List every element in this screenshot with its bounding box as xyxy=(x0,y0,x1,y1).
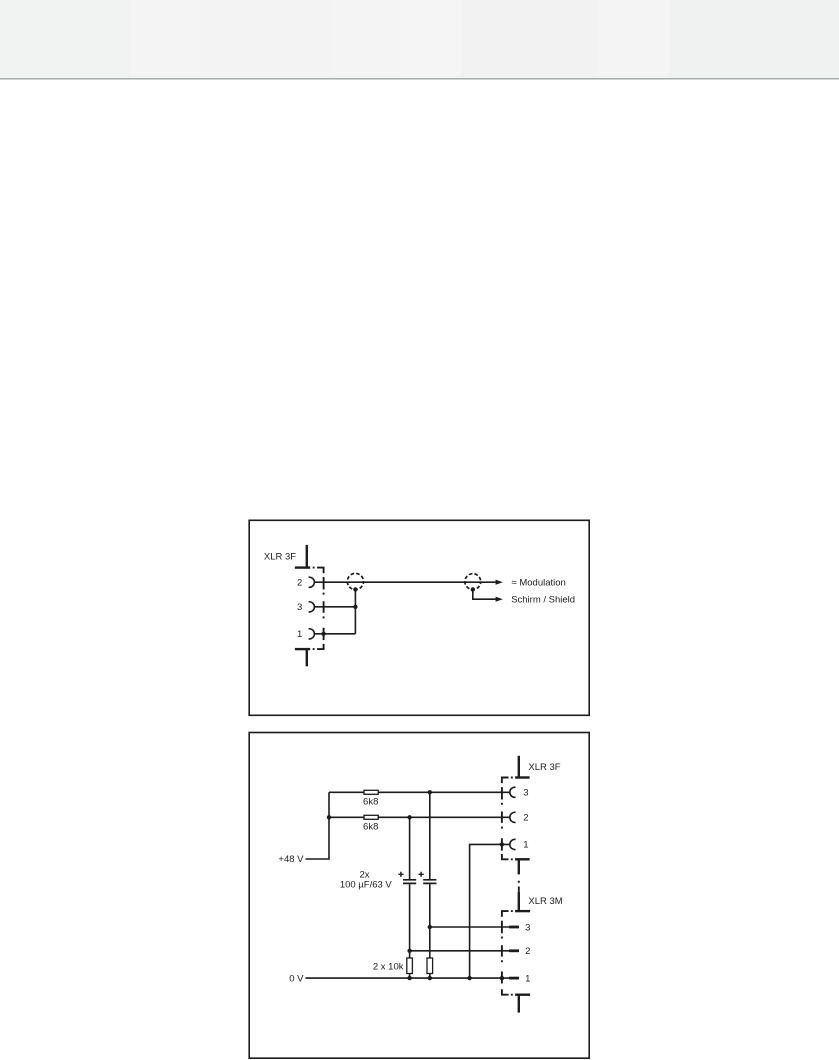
shield link dash-dot between connectors xyxy=(518,881,520,892)
pin 2 contact arc (J2) xyxy=(510,812,516,822)
svg-text:XLR 3F: XLR 3F xyxy=(264,552,296,563)
svg-text:100 µF/63 V: 100 µF/63 V xyxy=(340,880,393,891)
node +48V tee xyxy=(327,815,331,819)
connector J1 shell bottom bar xyxy=(295,648,310,650)
wire pin1 riser xyxy=(470,844,510,978)
capacitor C1 plus sign xyxy=(398,872,403,877)
resistor R3 10k xyxy=(407,958,413,974)
svg-text:3: 3 xyxy=(523,788,528,799)
node XLR3M pin1 shell junction xyxy=(500,976,504,980)
node upper rail to C2 xyxy=(428,790,432,794)
svg-text:+48 V: +48 V xyxy=(278,854,304,865)
arrow modulation xyxy=(496,580,503,585)
wire 0V rail xyxy=(306,977,510,979)
wire upper rail right xyxy=(378,791,510,793)
resistor R2 6k8 xyxy=(364,815,378,819)
connector J2 shell bottom bar xyxy=(515,858,530,860)
connector J1 shell top bar xyxy=(295,566,310,568)
node 0V to pin1 riser xyxy=(467,976,471,980)
wire lower rail right xyxy=(378,816,510,818)
connector J3 shell bottom stub xyxy=(518,995,520,1013)
svg-text:1: 1 xyxy=(523,840,528,851)
svg-text:2: 2 xyxy=(523,813,528,824)
connector J3 shell bottom dash-dot corner xyxy=(502,989,513,994)
header band bottom edge xyxy=(0,78,839,80)
svg-text:3: 3 xyxy=(525,922,530,933)
wire shield elbow to arrow xyxy=(473,590,496,600)
cable transition circle 1 xyxy=(347,573,363,589)
node under circle 2 xyxy=(471,587,475,591)
svg-text:Schirm / Shield: Schirm / Shield xyxy=(511,595,575,606)
wire XLR3M pin2 rail xyxy=(410,950,510,952)
connector J1 shell dash-dot line xyxy=(323,577,325,640)
svg-text:XLR 3F: XLR 3F xyxy=(528,762,560,773)
svg-text:6k8: 6k8 xyxy=(363,796,378,807)
svg-text:≈ Modulation: ≈ Modulation xyxy=(512,577,566,588)
connector J2 shell top bar xyxy=(515,776,530,778)
svg-text:0 V: 0 V xyxy=(289,973,304,984)
wire pin2 to modulation arrow xyxy=(314,581,496,583)
resistor R1 6k8 xyxy=(364,790,378,794)
connector J2 shell bottom stub xyxy=(518,859,520,874)
arrow shield xyxy=(496,597,503,602)
connector J3 shell top bar xyxy=(515,910,530,912)
connector J3 shell dash-dot line xyxy=(501,921,503,984)
svg-text:6k8: 6k8 xyxy=(363,822,378,833)
node under circle 1 xyxy=(353,587,357,591)
pin 2 bar (J3) xyxy=(509,949,519,952)
wire upper rail left xyxy=(329,791,364,793)
node pin1 shell junction xyxy=(321,632,325,636)
svg-text:2: 2 xyxy=(525,946,530,957)
resistor R3 bottom lead xyxy=(409,974,411,979)
connector J3 shell bottom bar xyxy=(515,994,530,996)
pin 3 bar (J3) xyxy=(509,926,519,929)
svg-text:2 x 10k: 2 x 10k xyxy=(373,961,404,972)
node pin3 junction xyxy=(353,605,357,609)
node C1 to pin2 rail xyxy=(407,949,411,953)
capacitor C2 top lead xyxy=(429,792,431,879)
pin 1 contact arc (J1) xyxy=(309,629,315,639)
connector J2 shell top dash-dot corner xyxy=(502,778,513,784)
node R4 to 0V xyxy=(428,976,432,980)
capacitor C1 bottom lead xyxy=(409,884,411,958)
node R3 to 0V xyxy=(407,976,411,980)
svg-text:3: 3 xyxy=(297,602,302,613)
wire pin1 xyxy=(314,633,355,635)
capacitor C1 top lead xyxy=(409,817,411,879)
connector J3 XLR 3M shell top stub xyxy=(518,892,520,911)
pin 2 contact arc (J1) xyxy=(309,577,315,587)
connector J2 XLR 3F shell top stub xyxy=(518,756,520,778)
connector J1 shell top dash-dot corner xyxy=(313,568,324,574)
wire lower rail left xyxy=(329,816,364,818)
pin 1 bar (J3) xyxy=(509,977,519,980)
svg-text:2: 2 xyxy=(297,578,302,589)
wire +48V feed xyxy=(306,792,330,859)
pin 3 contact arc (J1) xyxy=(309,602,315,612)
resistor R4 bottom lead xyxy=(429,974,431,979)
svg-text:1: 1 xyxy=(525,973,530,984)
node C2 to pin3 rail xyxy=(428,925,432,929)
capacitor C2 plus sign xyxy=(419,872,424,877)
connector J1 shell bottom dash-dot corner xyxy=(313,644,324,649)
connector J1 shell bottom stub xyxy=(306,649,308,666)
frame box 2 xyxy=(249,733,589,1059)
svg-text:1: 1 xyxy=(297,629,302,640)
connector J2 shell dash-dot line xyxy=(501,787,503,851)
node lower rail to C1 xyxy=(407,815,411,819)
capacitor C2 plates xyxy=(423,880,436,884)
connector J2 shell bottom dash-dot corner xyxy=(502,854,513,859)
cable transition circle 2 xyxy=(465,574,481,590)
svg-text:XLR 3M: XLR 3M xyxy=(528,896,562,907)
resistor R4 10k xyxy=(427,958,433,974)
wire shield vertical from circle 1 xyxy=(354,589,356,633)
capacitor C2 bottom lead xyxy=(429,884,431,958)
header band xyxy=(0,0,839,78)
pin 3 contact arc (J2) xyxy=(510,787,516,797)
connector J3 shell top dash-dot corner xyxy=(502,911,513,917)
frame box 1 xyxy=(249,520,589,715)
connector J1 shell top stub xyxy=(306,545,308,568)
capacitor C1 plates xyxy=(403,880,416,884)
pin 1 contact arc (J2) xyxy=(510,839,516,849)
wire XLR3M pin3 rail xyxy=(430,926,510,928)
wire pin3 xyxy=(314,606,355,608)
node XLR3F pin1 shell junction xyxy=(500,842,504,846)
